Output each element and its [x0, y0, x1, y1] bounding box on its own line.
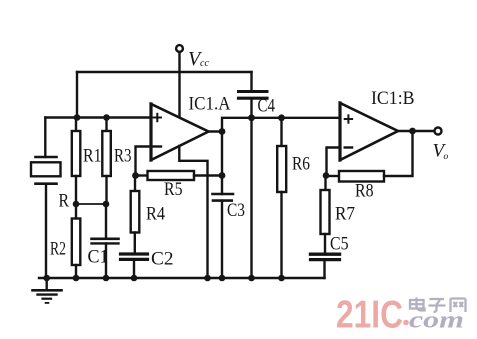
- node bias/R3: [103, 114, 110, 121]
- capacitor C5: [311, 254, 340, 259]
- wire R1 bottom lead: [75, 176, 77, 204]
- wire R5 right lead: [194, 174, 222, 176]
- wire R7 top lead: [324, 176, 326, 191]
- node rail R6: [278, 275, 285, 282]
- watermark 子: [429, 299, 446, 312]
- wire IC1.A inverting input: [136, 147, 152, 176]
- wire R6 top lead: [280, 118, 282, 146]
- svg-text:21IC: 21IC: [336, 294, 403, 337]
- svg-text:R2: R2: [50, 239, 66, 260]
- svg-text:R5: R5: [164, 179, 183, 200]
- watermark 电: [410, 298, 425, 311]
- wire C5 bottom lead to rail corner: [323, 260, 325, 278]
- watermark 网: [451, 299, 466, 313]
- capacitor C3: [213, 194, 234, 201]
- node Vo terminal: [435, 128, 442, 135]
- node IC1:B inverting: [323, 172, 330, 179]
- resistor R7: [321, 190, 330, 234]
- wire R2 bottom lead: [75, 265, 77, 278]
- wire C2 bottom lead: [133, 259, 135, 278]
- wire R4 top lead: [134, 176, 136, 192]
- node Vcc terminal: [176, 45, 183, 52]
- node IC1.A inverting: [132, 172, 139, 179]
- wire C1 bottom lead: [105, 244, 107, 279]
- svg-text:IC1.A: IC1.A: [189, 94, 231, 115]
- svg-text:R4: R4: [146, 204, 165, 225]
- svg-text:R: R: [59, 191, 70, 212]
- node R6 top: [278, 114, 285, 121]
- wire IC1:B output to terminal: [398, 130, 434, 132]
- crystal B body: [31, 162, 61, 176]
- node R left: [73, 201, 80, 208]
- svg-text:C3: C3: [227, 200, 245, 221]
- svg-text:IC1:B: IC1:B: [371, 88, 415, 109]
- svg-text:R6: R6: [292, 154, 310, 175]
- op-amp U2 IC1:B: [340, 103, 398, 160]
- wire IC1.A negative supply pin: [179, 146, 207, 278]
- wire IC1.A output: [209, 130, 223, 132]
- resistor R1: [72, 131, 81, 176]
- node R5/C3: [219, 172, 226, 179]
- resistor R3: [102, 131, 111, 176]
- wire node R row: [76, 203, 107, 205]
- wire left drop from Vcc rail: [76, 72, 78, 118]
- wire R7 to C5: [324, 234, 326, 253]
- wire R8 left lead: [326, 175, 339, 177]
- node rail C4: [248, 275, 255, 282]
- wire Vcc rail: [77, 71, 252, 73]
- node IC1:B output: [409, 128, 416, 135]
- resistor R6: [277, 146, 286, 192]
- wire R4 to C2: [134, 233, 136, 254]
- capacitor C1: [92, 239, 119, 244]
- resistor R5: [148, 171, 195, 180]
- node bias/R1: [74, 114, 81, 121]
- label Vcc: [188, 48, 209, 70]
- wire C1 top lead: [105, 204, 107, 238]
- wire R6 bottom lead: [280, 192, 282, 278]
- wire output up-corner to signal line: [222, 118, 339, 132]
- wire R3 bottom lead to node: [105, 176, 107, 204]
- wire C3 bottom lead: [221, 201, 223, 278]
- wire R5 left lead: [136, 174, 148, 176]
- node C4 bottom: [248, 114, 255, 121]
- wire IC1:B inverting input: [327, 148, 341, 176]
- svg-text:C1: C1: [88, 247, 109, 268]
- svg-text:R1: R1: [83, 146, 102, 167]
- wire crystal top lead: [44, 118, 46, 158]
- wire crystal bottom lead: [45, 184, 47, 278]
- wire C4 node down to ground rail: [250, 118, 252, 278]
- node R right: [103, 201, 110, 208]
- resistor R8: [339, 171, 384, 182]
- svg-text:o: o: [444, 152, 449, 162]
- svg-text:R3: R3: [114, 146, 132, 167]
- capacitor C4: [239, 92, 268, 99]
- node rail R2: [73, 275, 80, 282]
- crystal B top plate: [36, 156, 57, 159]
- node rail C1: [103, 275, 110, 282]
- wire ground rail: [39, 277, 325, 279]
- svg-text:R8: R8: [355, 181, 374, 202]
- node rail V- pin: [204, 275, 211, 282]
- ground: [33, 278, 62, 303]
- capacitor C2: [121, 254, 148, 259]
- node rail C2: [131, 275, 138, 282]
- svg-text:R7: R7: [335, 204, 355, 225]
- node rail C3: [219, 275, 226, 282]
- wire R2 top lead: [75, 204, 77, 219]
- watermark dot: [403, 320, 409, 326]
- node IC1.A output: [219, 128, 226, 135]
- wire output down to C3: [221, 132, 223, 195]
- svg-text:C5: C5: [330, 234, 349, 255]
- label Vo: [433, 141, 449, 163]
- wire C4 bottom lead: [250, 98, 252, 118]
- op-amp U1 IC1.A: [151, 104, 209, 160]
- svg-text:cc: cc: [200, 58, 209, 69]
- wire Vcc stem down to op-amp supply pin: [178, 52, 180, 117]
- wire R3 top lead: [105, 118, 107, 132]
- wire R8 right lead up to output: [384, 131, 413, 176]
- resistor R4: [131, 191, 140, 233]
- svg-text:C4: C4: [258, 96, 276, 117]
- svg-text:C2: C2: [151, 249, 174, 270]
- wire C4 top lead from Vcc rail: [250, 72, 252, 90]
- wire R1 top lead: [75, 118, 77, 132]
- node rail crystal: [43, 275, 50, 282]
- resistor R2: [72, 219, 81, 266]
- wire bias line to + input: [45, 116, 151, 118]
- crystal B bottom plate: [36, 182, 57, 185]
